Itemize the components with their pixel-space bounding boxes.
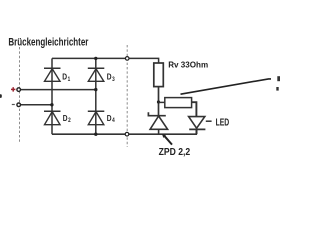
svg-text:4: 4	[112, 118, 115, 124]
right edge text fragment 1	[277, 76, 280, 81]
svg-text:Rv 33Ohm: Rv 33Ohm	[168, 60, 208, 70]
wire right bridge leg	[95, 58, 97, 134]
dashed boundary line left	[19, 47, 21, 143]
resistor R2 (horizontal)	[165, 98, 192, 108]
wire - input line	[20, 104, 52, 106]
wire bottom bus	[52, 133, 197, 135]
LED label dash	[206, 120, 212, 122]
wire left bridge leg	[51, 58, 53, 134]
diode D4	[88, 111, 105, 125]
right edge text fragment 2	[276, 87, 278, 91]
plus marker (red)	[11, 87, 15, 91]
svg-text:Brückengleichrichter: Brückengleichrichter	[8, 36, 89, 48]
wire + input line	[20, 89, 95, 91]
wire zener bottom lead	[158, 129, 160, 134]
dashed boundary line right	[126, 45, 128, 147]
svg-text:3: 3	[112, 77, 115, 83]
svg-text:D: D	[107, 73, 112, 82]
wire LED bottom lead	[196, 129, 198, 134]
pointer to ZPD label	[163, 135, 172, 145]
diode D3	[88, 68, 105, 81]
junction node + line / right leg	[94, 88, 97, 91]
svg-text:ZPD 2,2: ZPD 2,2	[159, 147, 191, 158]
zener diode ZPD 2,2	[148, 112, 167, 129]
junction node Rv / R2 tap	[157, 100, 160, 103]
boundary connector circle bottom	[125, 132, 129, 136]
LED diode	[189, 117, 206, 130]
svg-text:D: D	[107, 114, 112, 123]
wire R2 left lead	[159, 101, 165, 103]
wire top bus	[52, 58, 159, 63]
minus marker	[12, 104, 15, 106]
left edge text fragment (g)	[0, 94, 2, 98]
svg-text:2: 2	[68, 118, 71, 124]
wire R2 right lead to LED	[192, 102, 197, 116]
diode D1	[44, 68, 61, 81]
junction node - line / left leg	[50, 103, 53, 106]
terminal circle + input	[17, 88, 21, 92]
svg-text:D: D	[63, 114, 68, 123]
boundary connector circle top	[125, 57, 129, 61]
svg-text:D: D	[62, 73, 67, 82]
svg-text:LED: LED	[216, 118, 230, 129]
pointer line to right-edge label	[181, 79, 272, 94]
wire Rv bottom lead	[158, 87, 160, 116]
diode D2	[44, 111, 61, 125]
junction node top bus / right leg	[94, 57, 97, 60]
junction node bottom bus / right leg	[94, 133, 97, 136]
resistor Rv	[154, 63, 164, 87]
terminal circle - input	[17, 103, 21, 107]
svg-text:1: 1	[68, 77, 71, 83]
